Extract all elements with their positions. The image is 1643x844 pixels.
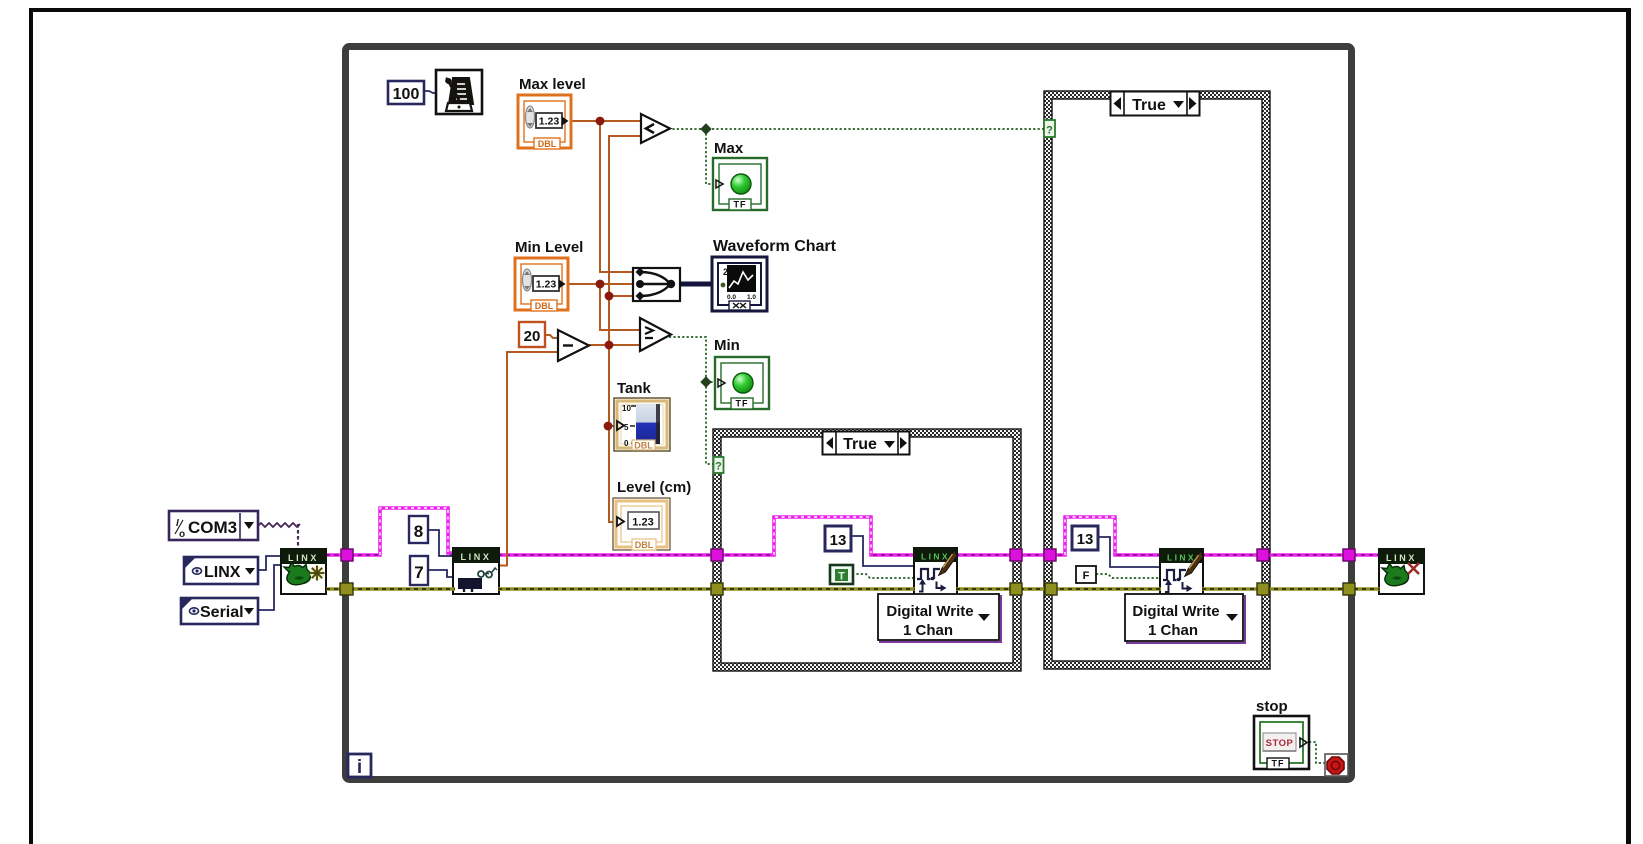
constant 13 (case 1) bbox=[825, 526, 851, 551]
LINX digital write VI (case 1) bbox=[914, 548, 957, 595]
wire: constant 8 to sonar block bbox=[428, 530, 455, 556]
svg-text:Min: Min bbox=[714, 337, 740, 354]
wire: T constant to digital write 1 (dotted green) bbox=[852, 574, 916, 578]
VISA resource constant COM3 bbox=[169, 511, 258, 540]
junction: olive square case1 right bbox=[1010, 583, 1022, 595]
svg-text:Digital Write: Digital Write bbox=[886, 603, 973, 620]
junction: olive square case2 left bbox=[1045, 583, 1057, 595]
junction: magenta square case1 left bbox=[711, 549, 723, 561]
wire: branch down to Max LED (dotted green) bbox=[706, 129, 715, 184]
svg-text:F: F bbox=[1083, 570, 1090, 582]
label Max level bbox=[519, 76, 586, 93]
waveform chart terminal bbox=[712, 257, 767, 311]
svg-text:LINX: LINX bbox=[461, 552, 492, 562]
greater-equal function bbox=[640, 318, 671, 351]
case structure 1 selector ? terminal bbox=[714, 457, 724, 473]
wire: level vertical bus (less-than bottom, bundle bottom, tank, level cm) bbox=[609, 136, 643, 522]
ring constant Serial bbox=[181, 598, 258, 624]
iteration terminal i bbox=[348, 754, 371, 778]
wire: magenta LINX resource main run bbox=[326, 508, 1380, 555]
junction: olive square case2 right bbox=[1257, 583, 1269, 595]
dropdown label Digital Write 1 Chan (case 2) bbox=[1125, 594, 1245, 643]
Max LED indicator bbox=[713, 158, 767, 210]
junction: orange dot min level bbox=[596, 280, 605, 289]
junction: magenta square case2 right bbox=[1257, 549, 1269, 561]
junction: green diamond max bbox=[701, 124, 711, 134]
constant 100 bbox=[388, 81, 424, 104]
junction: magenta square loop right bbox=[1343, 549, 1355, 561]
junction: orange dot max level bbox=[596, 117, 605, 126]
svg-text:8: 8 bbox=[414, 522, 423, 541]
svg-text:Serial: Serial bbox=[200, 604, 244, 621]
svg-text:5: 5 bbox=[624, 423, 629, 432]
svg-text:13: 13 bbox=[1077, 531, 1094, 548]
junction: magenta square case1 right bbox=[1010, 549, 1022, 561]
svg-text:13: 13 bbox=[830, 532, 847, 549]
case structure 2 selector label True bbox=[1111, 92, 1200, 116]
svg-text:TF: TF bbox=[736, 399, 749, 409]
wire: Max level branch to bundle top input bbox=[600, 121, 636, 272]
svg-text:LINX: LINX bbox=[1386, 553, 1417, 563]
wire: less-than output to case 2 selector (dotted green) bbox=[668, 128, 1044, 130]
LINX close VI bbox=[1379, 549, 1424, 594]
subtract function bbox=[558, 330, 589, 361]
wire: constant 20 to subtract top input bbox=[545, 335, 560, 338]
wire: bundle output to waveform chart (dynamic data) bbox=[680, 282, 714, 287]
svg-text:DBL: DBL bbox=[634, 441, 653, 451]
stop button terminal bbox=[1254, 716, 1309, 769]
loop condition terminal bbox=[1325, 754, 1348, 776]
svg-text:Tank: Tank bbox=[617, 380, 652, 397]
wire: constant 13 to digital write 2 bbox=[1098, 537, 1162, 567]
svg-text:7: 7 bbox=[414, 563, 423, 582]
wire: error cluster run (olive dashed) bbox=[326, 587, 1380, 591]
svg-text:DBL: DBL bbox=[535, 301, 554, 311]
svg-text:o: o bbox=[179, 529, 185, 540]
Min LED indicator bbox=[715, 357, 769, 409]
svg-text:stop: stop bbox=[1256, 698, 1288, 715]
svg-text:T: T bbox=[838, 571, 845, 583]
svg-text:Min Level: Min Level bbox=[515, 239, 583, 256]
wire: VISA COM3 to LINX open (dashed purple) bbox=[258, 523, 300, 549]
Level (cm) indicator bbox=[613, 498, 670, 550]
svg-text:COM3: COM3 bbox=[188, 518, 237, 537]
ring constant LINX bbox=[184, 557, 258, 584]
Wait ms VI (metronome) bbox=[436, 70, 482, 114]
svg-text:1.23: 1.23 bbox=[632, 517, 653, 529]
control Min Level bbox=[515, 258, 568, 311]
constant 8 bbox=[409, 516, 428, 543]
svg-text:10: 10 bbox=[622, 404, 631, 413]
label Min Level bbox=[515, 239, 583, 256]
svg-text:100: 100 bbox=[393, 86, 420, 103]
svg-text:Digital Write: Digital Write bbox=[1132, 603, 1219, 620]
svg-text:TF: TF bbox=[1272, 759, 1285, 769]
wire: constant 13 to digital write 1 bbox=[851, 536, 916, 566]
svg-text:True: True bbox=[1132, 97, 1166, 114]
wire: F constant to digital write 2 (dotted green) bbox=[1096, 574, 1160, 578]
svg-text:1.23: 1.23 bbox=[539, 116, 560, 128]
case structure 2 selector ? terminal bbox=[1044, 120, 1055, 137]
wire: LINX ring to open block bbox=[258, 556, 282, 570]
label Waveform Chart bbox=[713, 238, 837, 255]
case structure 1 border bbox=[713, 429, 1021, 671]
case structure 1 selector label True bbox=[823, 432, 910, 455]
svg-text:TF: TF bbox=[734, 200, 747, 210]
junction: olive square case1 left bbox=[711, 583, 723, 595]
svg-text:1.23: 1.23 bbox=[536, 279, 557, 291]
junction: green diamond min bbox=[701, 377, 711, 387]
svg-text:?: ? bbox=[1046, 125, 1053, 137]
wire: sonar output up to subtract bottom input bbox=[500, 352, 560, 566]
boolean constant F bbox=[1076, 566, 1096, 583]
label stop bbox=[1256, 698, 1288, 715]
wire: stop button to loop condition (dotted green) bbox=[1309, 742, 1325, 763]
junction: orange dot level to bundle bbox=[605, 292, 614, 301]
svg-text:Max: Max bbox=[714, 140, 744, 157]
Tank indicator bbox=[614, 398, 670, 451]
wire: constant 100 to Wait ms bbox=[424, 91, 437, 93]
wire: Min Level to bundle middle input bbox=[569, 283, 636, 285]
label Tank bbox=[617, 380, 652, 397]
constant 13 (case 2) bbox=[1072, 526, 1098, 550]
LINX digital write VI (case 2) bbox=[1160, 549, 1203, 594]
svg-text:LINX: LINX bbox=[1167, 553, 1196, 563]
junction: orange dot tank bbox=[604, 422, 613, 431]
svg-text:20: 20 bbox=[524, 328, 541, 345]
wire: greater-equal output to Min LED and case 1 selector (dotted green) bbox=[669, 337, 717, 464]
LINX open VI bbox=[281, 549, 326, 594]
junction: magenta square loop left bbox=[341, 549, 353, 561]
merge signals (bundle) bbox=[633, 268, 680, 302]
svg-text:DBL: DBL bbox=[635, 540, 654, 550]
dropdown label Digital Write 1 Chan (case 1) bbox=[878, 594, 1001, 642]
wire: Serial ring to open block bbox=[258, 565, 282, 610]
constant 20 bbox=[519, 322, 545, 347]
svg-text:LINX: LINX bbox=[288, 553, 319, 563]
svg-text:1 Chan: 1 Chan bbox=[1148, 622, 1198, 639]
label Max bbox=[714, 140, 744, 157]
svg-text:Level (cm): Level (cm) bbox=[617, 479, 691, 496]
wire: constant 7 to sonar block bbox=[428, 570, 455, 577]
svg-text:LINX: LINX bbox=[921, 552, 950, 562]
LINX sonar read VI bbox=[453, 548, 499, 594]
svg-text:1.0: 1.0 bbox=[747, 294, 756, 301]
junction: olive square loop left bbox=[340, 583, 353, 595]
svg-text:LINX: LINX bbox=[204, 564, 241, 581]
wire: subtract output to level bus bbox=[589, 344, 609, 346]
junction: magenta square case2 left bbox=[1044, 549, 1056, 561]
svg-text:STOP: STOP bbox=[1266, 738, 1294, 749]
control Max level bbox=[518, 95, 571, 149]
svg-text:Waveform Chart: Waveform Chart bbox=[713, 238, 837, 255]
svg-text:Max level: Max level bbox=[519, 76, 586, 93]
wire: Min Level branch to greater-equal top input bbox=[600, 284, 642, 330]
svg-text:0: 0 bbox=[624, 439, 629, 448]
boolean constant T bbox=[830, 565, 853, 584]
svg-text:1 Chan: 1 Chan bbox=[903, 622, 953, 639]
wire: Max level to less-than top input bbox=[571, 120, 643, 122]
junction: olive square loop right bbox=[1343, 583, 1355, 595]
while loop border bbox=[346, 47, 1352, 780]
svg-text:True: True bbox=[843, 436, 877, 453]
svg-text:0.0: 0.0 bbox=[727, 294, 736, 301]
svg-text:DBL: DBL bbox=[538, 139, 557, 149]
less-than function bbox=[641, 114, 670, 143]
case structure 2 border bbox=[1044, 91, 1270, 669]
label Level (cm) bbox=[617, 479, 691, 496]
constant 7 bbox=[410, 556, 428, 585]
label Min bbox=[714, 337, 740, 354]
junction: orange dot level subtract bbox=[605, 341, 614, 350]
svg-text:i: i bbox=[357, 757, 362, 778]
svg-text:?: ? bbox=[715, 461, 722, 473]
